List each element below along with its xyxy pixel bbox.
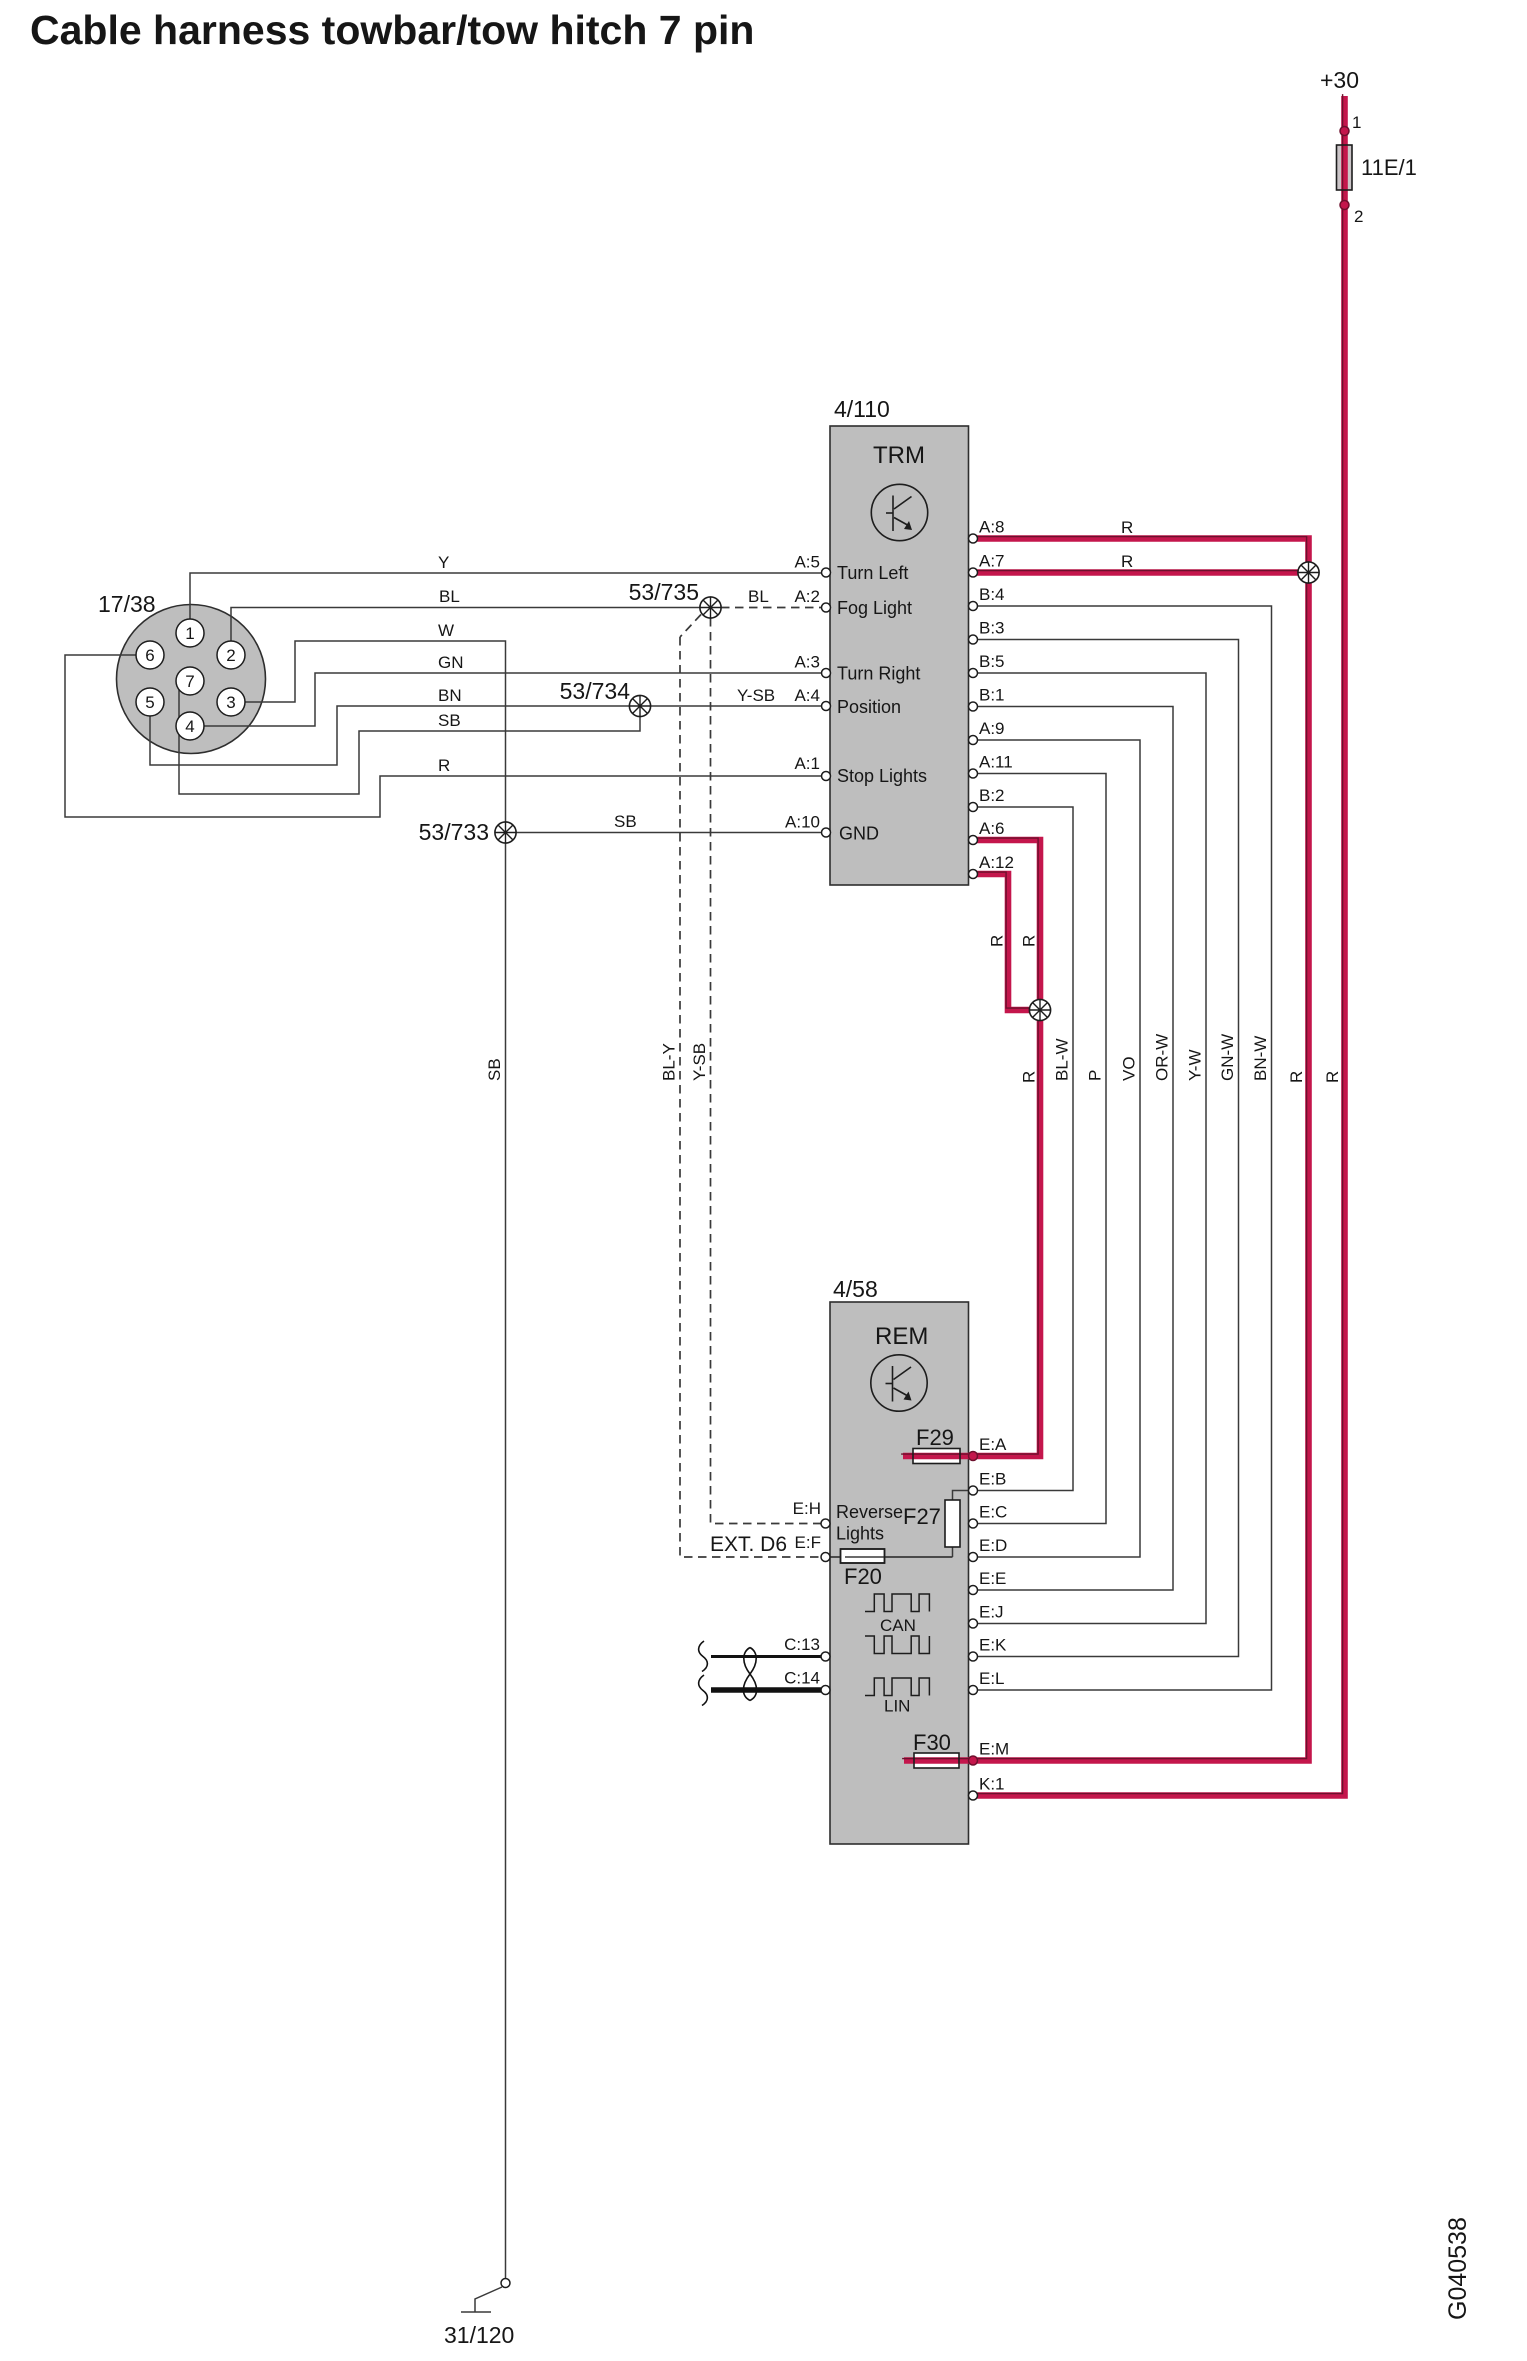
svg-text:GN-W: GN-W [1218,1034,1237,1081]
svg-text:Y: Y [438,553,449,572]
svg-text:E:L: E:L [979,1669,1005,1688]
svg-text:Turn Left: Turn Left [837,563,908,583]
svg-text:GND: GND [839,824,879,844]
svg-text:TRM: TRM [873,442,925,469]
svg-text:B:4: B:4 [979,585,1005,604]
svg-text:B:2: B:2 [979,786,1005,805]
svg-text:GN: GN [438,653,464,672]
svg-text:Y-SB: Y-SB [737,686,775,705]
svg-text:4: 4 [185,717,194,736]
svg-text:B:3: B:3 [979,619,1005,638]
svg-text:F30: F30 [913,1730,951,1755]
svg-text:BN: BN [438,686,462,705]
svg-text:F29: F29 [916,1425,954,1450]
svg-text:5: 5 [145,693,154,712]
svg-text:R: R [988,935,1007,947]
svg-text:B:5: B:5 [979,652,1005,671]
svg-text:W: W [438,621,454,640]
svg-text:A:6: A:6 [979,819,1005,838]
svg-text:R: R [1121,552,1133,571]
svg-text:+30: +30 [1320,67,1359,93]
svg-text:A:12: A:12 [979,853,1014,872]
svg-text:7: 7 [185,672,194,691]
svg-text:F20: F20 [844,1564,882,1589]
svg-text:11E/1: 11E/1 [1361,155,1417,180]
svg-text:K:1: K:1 [979,1775,1005,1794]
svg-text:A:9: A:9 [979,719,1005,738]
svg-text:VO: VO [1120,1056,1139,1081]
svg-text:31/120: 31/120 [444,2322,514,2348]
svg-text:BL: BL [748,587,769,606]
svg-text:E:D: E:D [979,1536,1007,1555]
svg-text:53/733: 53/733 [419,819,489,845]
svg-text:1: 1 [185,624,194,643]
svg-text:C:14: C:14 [784,1669,820,1688]
svg-text:SB: SB [438,711,461,730]
svg-text:Reverse: Reverse [836,1502,903,1522]
svg-text:B:1: B:1 [979,686,1005,705]
svg-text:BL-W: BL-W [1053,1039,1072,1082]
svg-text:F27: F27 [903,1504,941,1529]
svg-text:BL: BL [439,587,460,606]
svg-text:G040538: G040538 [1444,2217,1472,2320]
svg-text:C:13: C:13 [784,1635,820,1654]
svg-text:Y-W: Y-W [1186,1050,1205,1082]
svg-text:A:2: A:2 [794,587,820,606]
svg-text:17/38: 17/38 [98,591,156,617]
svg-text:OR-W: OR-W [1153,1034,1172,1081]
svg-text:A:3: A:3 [794,653,820,672]
svg-text:BN-W: BN-W [1251,1036,1270,1081]
svg-text:A:10: A:10 [785,813,820,832]
svg-text:1: 1 [1352,113,1361,132]
svg-text:A:11: A:11 [979,753,1013,772]
svg-text:E:H: E:H [793,1499,821,1518]
svg-text:A:1: A:1 [794,754,820,773]
svg-text:E:E: E:E [979,1569,1006,1588]
svg-text:CAN: CAN [880,1616,916,1635]
svg-text:A:5: A:5 [794,553,820,572]
svg-text:E:B: E:B [979,1470,1006,1489]
svg-text:Cable harness towbar/tow hitch: Cable harness towbar/tow hitch 7 pin [30,7,754,53]
svg-text:SB: SB [485,1058,504,1081]
svg-text:E:M: E:M [979,1740,1009,1759]
svg-text:E:A: E:A [979,1435,1007,1454]
svg-text:BL-Y: BL-Y [660,1043,679,1081]
svg-text:A:4: A:4 [794,686,820,705]
svg-text:R: R [1121,518,1133,537]
svg-text:R: R [1323,1071,1342,1083]
svg-text:2: 2 [1354,207,1363,226]
svg-text:Position: Position [837,697,901,717]
svg-text:Stop Lights: Stop Lights [837,766,927,786]
svg-text:53/734: 53/734 [560,678,631,704]
svg-text:E:J: E:J [979,1603,1004,1622]
svg-text:R: R [1020,1071,1039,1083]
svg-text:SB: SB [614,812,637,831]
svg-text:53/735: 53/735 [629,579,699,605]
svg-text:A:7: A:7 [979,552,1005,571]
svg-text:4/110: 4/110 [834,396,890,422]
svg-text:R: R [1287,1071,1306,1083]
svg-text:R: R [1020,935,1039,947]
svg-text:REM: REM [875,1323,928,1350]
svg-text:A:8: A:8 [979,518,1005,537]
svg-text:Y-SB: Y-SB [690,1043,709,1081]
svg-text:2: 2 [226,646,235,665]
svg-text:Lights: Lights [836,1524,884,1544]
svg-text:E:K: E:K [979,1636,1007,1655]
svg-text:3: 3 [226,693,235,712]
svg-text:6: 6 [145,646,154,665]
svg-text:E:C: E:C [979,1503,1007,1522]
svg-text:R: R [438,756,450,775]
svg-text:P: P [1086,1070,1105,1081]
svg-text:Turn Right: Turn Right [837,664,920,684]
svg-text:E:F: E:F [795,1533,821,1552]
svg-text:EXT. D6: EXT. D6 [710,1533,787,1556]
svg-text:4/58: 4/58 [833,1276,878,1302]
svg-text:LIN: LIN [884,1697,910,1716]
svg-text:Fog Light: Fog Light [837,598,912,618]
